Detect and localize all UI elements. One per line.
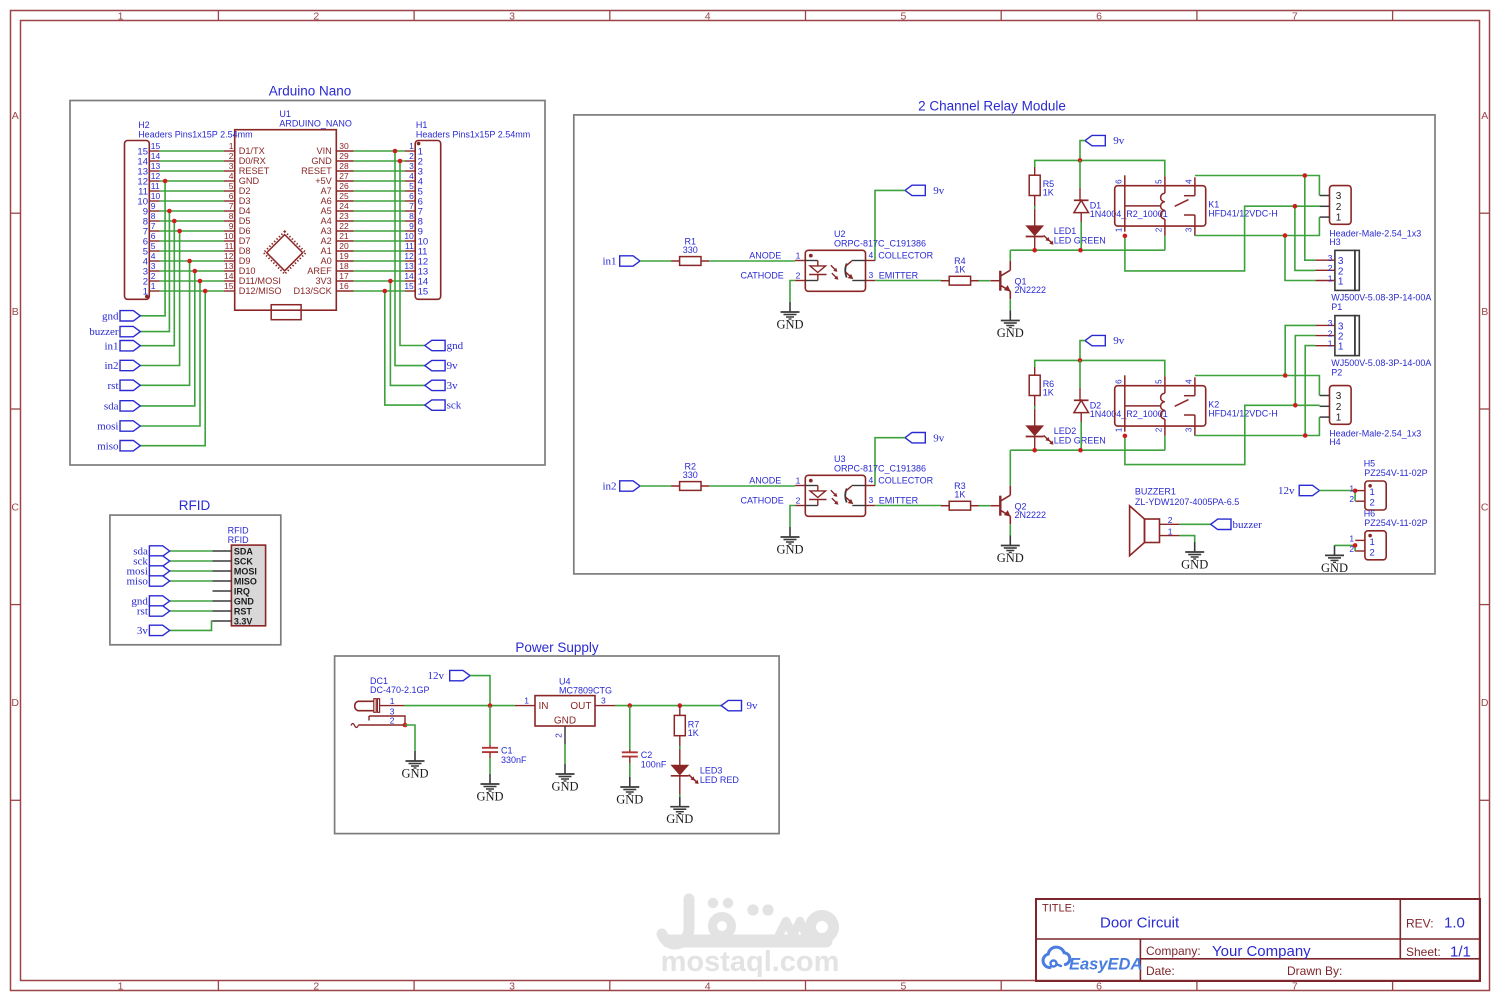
svg-text:4: 4 xyxy=(1184,379,1193,384)
IC U1 ARDUINO_NANO xyxy=(224,109,354,310)
section box Arduino Nano xyxy=(70,101,545,466)
junction LED2 cathode xyxy=(1032,448,1037,453)
junction C2 xyxy=(628,703,633,708)
svg-text:OUT: OUT xyxy=(570,701,591,712)
svg-text:P2: P2 xyxy=(1331,367,1342,377)
svg-text:2: 2 xyxy=(390,715,395,725)
svg-text:H3: H3 xyxy=(1329,237,1341,247)
svg-text:sck: sck xyxy=(447,400,462,412)
net flag 12v xyxy=(1278,485,1320,497)
svg-text:14: 14 xyxy=(151,151,161,161)
svg-text:SCK: SCK xyxy=(234,556,254,566)
wire net mosi (left) xyxy=(140,281,200,426)
net flag 3v xyxy=(425,380,458,392)
frame column ticks xyxy=(218,11,1392,991)
relay K2 HFD41/12VDC-H xyxy=(1114,375,1277,436)
svg-text:buzzer: buzzer xyxy=(89,326,119,338)
net flag 3v xyxy=(137,625,170,637)
resistor R1 330 xyxy=(671,236,709,265)
svg-text:A3: A3 xyxy=(321,226,332,236)
connector H6 PZ254V-11-02P xyxy=(1349,509,1427,560)
svg-text:4: 4 xyxy=(705,980,711,992)
junction P1 pin2 branch xyxy=(1293,204,1298,209)
svg-text:4: 4 xyxy=(409,171,414,181)
capacitor C2 100nF xyxy=(622,706,667,770)
svg-text:COLLECTOR: COLLECTOR xyxy=(878,251,933,261)
wire LED3 to ground xyxy=(679,795,681,797)
svg-text:11: 11 xyxy=(151,181,160,191)
svg-text:5: 5 xyxy=(1154,379,1163,384)
svg-text:RESET: RESET xyxy=(239,166,270,176)
svg-text:3: 3 xyxy=(229,161,234,171)
svg-text:Headers Pins1x15P 2.54mm: Headers Pins1x15P 2.54mm xyxy=(138,129,252,139)
wire Q2 emitter to ground xyxy=(1009,524,1011,535)
svg-text:12v: 12v xyxy=(1278,485,1295,497)
svg-text:U2: U2 xyxy=(834,229,846,239)
svg-text:1: 1 xyxy=(1370,487,1375,498)
svg-text:A: A xyxy=(12,110,19,122)
svg-text:D8: D8 xyxy=(239,246,251,256)
svg-text:6: 6 xyxy=(151,231,156,241)
diode D2 1N4004_R2_10001 xyxy=(1074,360,1168,450)
svg-text:2: 2 xyxy=(1349,544,1354,554)
net flag 9v xyxy=(721,700,758,712)
svg-text:3: 3 xyxy=(1336,191,1342,202)
svg-text:MOSI: MOSI xyxy=(234,566,257,576)
svg-text:TITLE:: TITLE: xyxy=(1042,903,1075,915)
svg-text:2: 2 xyxy=(1370,498,1375,509)
svg-text:4: 4 xyxy=(869,250,874,260)
resistor R5 1K xyxy=(1029,167,1054,206)
net flag gnd xyxy=(102,310,140,322)
svg-text:D6: D6 xyxy=(239,226,251,236)
frame row ticks xyxy=(11,213,1490,800)
svg-text:1K: 1K xyxy=(1043,388,1054,398)
net flag in1 xyxy=(104,340,140,352)
svg-text:Door Circuit: Door Circuit xyxy=(1100,915,1180,932)
svg-text:D: D xyxy=(11,697,19,709)
EasyEDA logo xyxy=(1043,947,1142,973)
svg-text:LED GREEN: LED GREEN xyxy=(1054,436,1106,446)
svg-text:GND: GND xyxy=(997,326,1024,340)
svg-text:13: 13 xyxy=(151,161,161,171)
svg-text:3.3V: 3.3V xyxy=(234,616,253,626)
svg-text:3: 3 xyxy=(1336,391,1342,402)
svg-text:1: 1 xyxy=(409,141,414,151)
svg-text:Power Supply: Power Supply xyxy=(515,640,599,655)
svg-text:5: 5 xyxy=(1154,179,1163,184)
svg-text:COLLECTOR: COLLECTOR xyxy=(878,476,933,486)
svg-text:4: 4 xyxy=(229,171,234,181)
svg-text:A2: A2 xyxy=(321,236,332,246)
net flag mosi xyxy=(97,421,140,433)
title block Company xyxy=(1146,943,1311,960)
svg-text:9v: 9v xyxy=(933,432,945,444)
wire branch to P1 pin2 xyxy=(1295,206,1316,270)
net flag gnd xyxy=(131,596,169,608)
wire opto cathode to ground xyxy=(790,506,795,528)
svg-text:1: 1 xyxy=(1349,533,1354,543)
svg-text:+5V: +5V xyxy=(315,176,332,186)
wires H2 to U1 xyxy=(160,151,225,291)
connector H2 Headers Pins1x15P 2.54mm xyxy=(125,120,253,299)
svg-text:3: 3 xyxy=(601,696,606,706)
svg-text:2: 2 xyxy=(1349,494,1354,504)
net flag 9v xyxy=(905,432,945,444)
wire net gnd (right) xyxy=(400,161,425,346)
svg-text:D3: D3 xyxy=(239,196,251,206)
svg-text:1: 1 xyxy=(1349,484,1354,494)
svg-text:gnd: gnd xyxy=(447,340,464,352)
svg-text:10: 10 xyxy=(404,231,414,241)
svg-text:7: 7 xyxy=(229,201,234,211)
section box Power Supply xyxy=(335,656,779,834)
net flag 12v xyxy=(428,670,471,682)
svg-text:SDA: SDA xyxy=(234,546,254,556)
junction P2 pin3 branch xyxy=(1283,373,1288,378)
svg-text:GND: GND xyxy=(666,812,693,826)
ground xyxy=(666,797,693,827)
wire K1 pin3 to H3 pin1 xyxy=(1195,217,1320,235)
svg-text:EMITTER: EMITTER xyxy=(879,271,919,281)
svg-text:RFID: RFID xyxy=(179,498,211,513)
resistor R7 1K xyxy=(674,706,699,746)
svg-text:12v: 12v xyxy=(428,670,445,682)
svg-text:3: 3 xyxy=(409,161,414,171)
svg-text:C2: C2 xyxy=(641,750,653,760)
svg-text:GND: GND xyxy=(776,318,803,332)
svg-text:GND: GND xyxy=(997,551,1024,565)
wire U4 GND pin to ground xyxy=(564,744,566,764)
wire R2 to opto xyxy=(709,485,795,487)
svg-text:2: 2 xyxy=(229,151,234,161)
net flag sda xyxy=(133,546,169,558)
svg-text:2: 2 xyxy=(1328,328,1333,338)
svg-text:GND: GND xyxy=(239,176,260,186)
svg-text:2: 2 xyxy=(1328,263,1333,273)
dc jack DC1 DC-470-2.1GP xyxy=(351,676,430,728)
svg-text:C: C xyxy=(1481,502,1489,514)
svg-text:15: 15 xyxy=(404,281,414,291)
svg-text:2N2222: 2N2222 xyxy=(1015,285,1047,295)
wire K2 pin3 to H4 pin1 xyxy=(1195,417,1320,435)
svg-text:Arduino Nano: Arduino Nano xyxy=(269,84,352,99)
svg-text:1: 1 xyxy=(1168,526,1173,536)
svg-text:rst: rst xyxy=(108,380,119,392)
svg-text:Headers Pins1x15P 2.54mm: Headers Pins1x15P 2.54mm xyxy=(416,129,530,139)
svg-text:2: 2 xyxy=(313,980,319,992)
junction H5 pin1 xyxy=(1353,489,1358,494)
svg-text:LED1: LED1 xyxy=(1054,226,1077,236)
collector rail wire xyxy=(1010,449,1165,451)
svg-text:Drawn By:: Drawn By: xyxy=(1287,964,1342,978)
svg-text:GND: GND xyxy=(554,716,576,727)
svg-text:2: 2 xyxy=(1336,402,1342,413)
wire net sda (rfid) xyxy=(170,550,213,552)
net flag 9v xyxy=(425,360,458,372)
svg-text:Date:: Date: xyxy=(1146,964,1175,978)
svg-text:9v: 9v xyxy=(1113,135,1125,147)
svg-text:D12/MISO: D12/MISO xyxy=(239,286,282,296)
svg-text:9v: 9v xyxy=(447,360,459,372)
wire 9v to opto collector xyxy=(875,438,905,486)
net flag mosi xyxy=(126,566,169,578)
svg-text:4: 4 xyxy=(1184,179,1193,184)
svg-text:28: 28 xyxy=(339,161,349,171)
connector H5 PZ254V-11-02P xyxy=(1349,459,1427,510)
svg-text:18: 18 xyxy=(339,261,349,271)
svg-text:2: 2 xyxy=(409,151,414,161)
svg-text:10: 10 xyxy=(151,191,161,201)
junction buzzer xyxy=(167,209,172,214)
svg-text:IRQ: IRQ xyxy=(234,586,250,596)
wire net sck (right) xyxy=(385,291,425,405)
svg-text:A0: A0 xyxy=(321,256,332,266)
svg-text:17: 17 xyxy=(339,271,349,281)
junction miso xyxy=(203,289,208,294)
svg-text:WJ500V-5.08-3P-14-00A: WJ500V-5.08-3P-14-00A xyxy=(1331,293,1431,303)
junction 9v rail xyxy=(1078,158,1083,163)
svg-text:GND: GND xyxy=(616,793,643,807)
wire branch to P1 pin1 xyxy=(1285,236,1315,281)
title block Date and Drawn By xyxy=(1146,964,1342,978)
svg-text:1: 1 xyxy=(118,980,124,992)
wire net 3v (rfid) xyxy=(170,621,213,630)
svg-text:26: 26 xyxy=(339,181,349,191)
terminal P1 WJ500V-5.08-3P-14-00A xyxy=(1315,250,1431,312)
svg-text:MISO: MISO xyxy=(234,576,257,586)
svg-text:1: 1 xyxy=(229,141,234,151)
svg-text:9v: 9v xyxy=(747,700,759,712)
svg-text:EasyEDA: EasyEDA xyxy=(1069,956,1142,974)
module RFID reader xyxy=(213,526,266,627)
svg-text:RFID: RFID xyxy=(228,535,249,545)
svg-text:mosi: mosi xyxy=(97,421,118,433)
svg-text:ORPC-817C_C191386: ORPC-817C_C191386 xyxy=(834,238,926,248)
wire Q2 collector to rail xyxy=(1009,450,1011,486)
svg-text:HFD41/12VDC-H: HFD41/12VDC-H xyxy=(1208,209,1278,219)
wire R5 to LED1 xyxy=(1034,206,1036,209)
svg-text:12: 12 xyxy=(151,171,161,181)
svg-text:10: 10 xyxy=(224,231,234,241)
svg-text:3: 3 xyxy=(869,270,874,280)
svg-text:LED3: LED3 xyxy=(700,766,723,776)
svg-text:5: 5 xyxy=(229,181,234,191)
ground xyxy=(616,777,643,807)
section box 2 Channel Relay Module xyxy=(574,115,1435,574)
junction DC1 sleeve xyxy=(403,723,408,728)
regulator U4 MC7809CTG xyxy=(515,677,615,745)
wire 12v to rail xyxy=(470,676,490,706)
svg-text:1N4004_R2_10001: 1N4004_R2_10001 xyxy=(1090,409,1168,419)
svg-text:1: 1 xyxy=(1114,427,1123,432)
svg-text:100nF: 100nF xyxy=(641,759,667,769)
svg-text:ORPC-817C_C191386: ORPC-817C_C191386 xyxy=(834,463,926,473)
svg-text:D7: D7 xyxy=(239,236,251,246)
net flag 9v xyxy=(905,185,945,197)
svg-text:20: 20 xyxy=(339,241,349,251)
svg-text:ANODE: ANODE xyxy=(749,251,781,261)
svg-text:5: 5 xyxy=(900,980,906,992)
svg-text:8: 8 xyxy=(409,211,414,221)
svg-text:25: 25 xyxy=(339,191,349,201)
net flag rst xyxy=(108,380,141,392)
wire C2 to ground xyxy=(629,763,631,777)
svg-text:Company:: Company: xyxy=(1146,944,1201,958)
svg-text:D11/MOSI: D11/MOSI xyxy=(239,276,281,286)
wire rail to relay coil pin 2 xyxy=(1164,236,1166,250)
frame column numbers xyxy=(118,10,1298,992)
junction K1 pin1 xyxy=(1123,234,1128,239)
svg-text:2: 2 xyxy=(1154,427,1163,432)
svg-text:1: 1 xyxy=(1338,277,1344,288)
svg-text:Your Company: Your Company xyxy=(1212,943,1311,960)
junction sck xyxy=(383,289,388,294)
svg-text:AREF: AREF xyxy=(307,266,332,276)
svg-text:27: 27 xyxy=(339,171,349,181)
svg-text:rst: rst xyxy=(137,606,148,618)
wire 9v net to P1 pin3 xyxy=(1305,176,1316,261)
svg-text:1K: 1K xyxy=(1043,188,1054,198)
svg-text:1: 1 xyxy=(524,696,529,706)
wire H6 pin2 to ground xyxy=(1335,545,1356,551)
wire net miso (left) xyxy=(140,291,205,446)
wire net buzzer (left) xyxy=(140,211,169,332)
svg-text:1: 1 xyxy=(1328,273,1333,283)
svg-text:D: D xyxy=(1481,697,1489,709)
wire in2 to R2 xyxy=(640,485,672,487)
svg-text:1: 1 xyxy=(143,286,148,297)
svg-text:buzzer: buzzer xyxy=(1233,519,1263,531)
svg-text:2: 2 xyxy=(1336,202,1342,213)
connector H3 Header-Male-2.54_1x3 xyxy=(1320,186,1422,247)
svg-text:7: 7 xyxy=(409,201,414,211)
svg-text:330: 330 xyxy=(683,245,698,255)
led LED3 LED RED xyxy=(671,749,740,795)
wire buzzer pin1 to ground xyxy=(1180,536,1195,542)
connector H1 Headers Pins1x15P 2.54mm xyxy=(404,120,530,299)
svg-text:7: 7 xyxy=(1292,980,1298,992)
section box RFID xyxy=(110,515,281,645)
svg-text:MC7809CTG: MC7809CTG xyxy=(559,686,612,696)
wire R1 to opto xyxy=(709,260,795,262)
net flag in1 xyxy=(602,256,640,268)
wire net rst (left) xyxy=(140,261,189,385)
svg-text:6: 6 xyxy=(409,191,414,201)
svg-text:BUZZER1: BUZZER1 xyxy=(1135,487,1176,497)
svg-text:14: 14 xyxy=(224,271,234,281)
wire Q1 emitter to ground xyxy=(1009,299,1011,310)
optocoupler U3 ORPC-817C_C191386 xyxy=(740,454,933,517)
wire R4 to Q1 base xyxy=(979,280,991,282)
svg-text:miso: miso xyxy=(126,576,148,588)
junction 3v xyxy=(388,279,393,284)
net flag miso xyxy=(126,576,169,588)
wire net sck (rfid) xyxy=(170,560,213,562)
svg-text:PZ254V-11-02P: PZ254V-11-02P xyxy=(1364,468,1427,478)
svg-text:GND: GND xyxy=(311,156,332,166)
svg-text:ZL-YDW1207-4005PA-6.5: ZL-YDW1207-4005PA-6.5 xyxy=(1135,497,1239,507)
svg-text:2: 2 xyxy=(554,733,564,738)
svg-text:11: 11 xyxy=(225,241,234,251)
svg-text:GND: GND xyxy=(476,790,503,804)
svg-text:REV:: REV: xyxy=(1406,917,1434,931)
svg-text:H4: H4 xyxy=(1329,437,1341,447)
net flag buzzer xyxy=(89,326,140,338)
title block Sheet xyxy=(1406,944,1471,961)
resistor R6 1K xyxy=(1029,367,1054,406)
U1 core IC diamond symbol xyxy=(264,231,306,274)
title block REV xyxy=(1406,915,1465,932)
svg-text:30: 30 xyxy=(339,141,349,151)
collector rail wire xyxy=(1010,249,1165,251)
svg-text:1: 1 xyxy=(1338,342,1344,353)
wire R7 to LED3 xyxy=(679,746,681,749)
svg-text:4: 4 xyxy=(705,10,711,22)
net flag sda xyxy=(104,401,140,413)
svg-text:29: 29 xyxy=(339,151,349,161)
svg-text:8: 8 xyxy=(229,211,234,221)
svg-text:2: 2 xyxy=(1370,548,1375,559)
svg-text:15: 15 xyxy=(224,281,234,291)
wire net sda (left) xyxy=(140,271,195,406)
svg-text:U3: U3 xyxy=(834,454,846,464)
svg-text:6: 6 xyxy=(1114,179,1123,184)
svg-text:A4: A4 xyxy=(321,216,332,226)
wire C1 to ground xyxy=(489,758,491,774)
svg-text:in2: in2 xyxy=(602,481,616,493)
wire R6 to LED2 xyxy=(1034,406,1036,409)
svg-text:16: 16 xyxy=(339,281,349,291)
svg-text:11: 11 xyxy=(405,241,414,251)
wire DC1 to U4 IN xyxy=(404,705,515,707)
wire branch to P2 pin3 xyxy=(1285,325,1315,375)
ground xyxy=(476,774,503,804)
svg-text:1K: 1K xyxy=(954,490,965,500)
net flag sck xyxy=(425,400,462,412)
svg-text:2N2222: 2N2222 xyxy=(1015,510,1047,520)
svg-text:Header-Male-2.54_1x3: Header-Male-2.54_1x3 xyxy=(1329,428,1421,438)
svg-text:A7: A7 xyxy=(321,186,332,196)
capacitor C1 330nF xyxy=(482,706,527,765)
svg-text:A1: A1 xyxy=(321,246,332,256)
svg-text:ARDUINO_NANO: ARDUINO_NANO xyxy=(279,119,352,129)
svg-text:2: 2 xyxy=(313,10,319,22)
svg-text:D10: D10 xyxy=(239,266,256,276)
svg-text:CATHODE: CATHODE xyxy=(740,496,783,506)
junction 9v xyxy=(393,149,398,154)
svg-text:1/1: 1/1 xyxy=(1450,944,1471,961)
ground xyxy=(997,311,1024,341)
wire in1 to R1 xyxy=(640,260,672,262)
resistor R2 330 xyxy=(671,461,709,490)
junction 9v-P1 xyxy=(1303,173,1308,178)
svg-text:15: 15 xyxy=(151,141,161,151)
svg-text:9: 9 xyxy=(409,221,414,231)
junction D1 anode xyxy=(1078,248,1083,253)
svg-text:1.0: 1.0 xyxy=(1444,915,1465,932)
relay K1 HFD41/12VDC-H xyxy=(1114,175,1277,236)
svg-text:13: 13 xyxy=(224,261,234,271)
buzzer BUZZER1 ZL-YDW1207-4005PA-6.5 xyxy=(1130,487,1240,556)
ground xyxy=(776,302,803,332)
ground xyxy=(1321,545,1348,575)
svg-text:D1/TX: D1/TX xyxy=(239,146,265,156)
svg-text:gnd: gnd xyxy=(102,310,119,322)
svg-text:1N4004_R2_10001: 1N4004_R2_10001 xyxy=(1090,209,1168,219)
net flag rst xyxy=(137,606,170,618)
title block frame xyxy=(1036,899,1480,981)
